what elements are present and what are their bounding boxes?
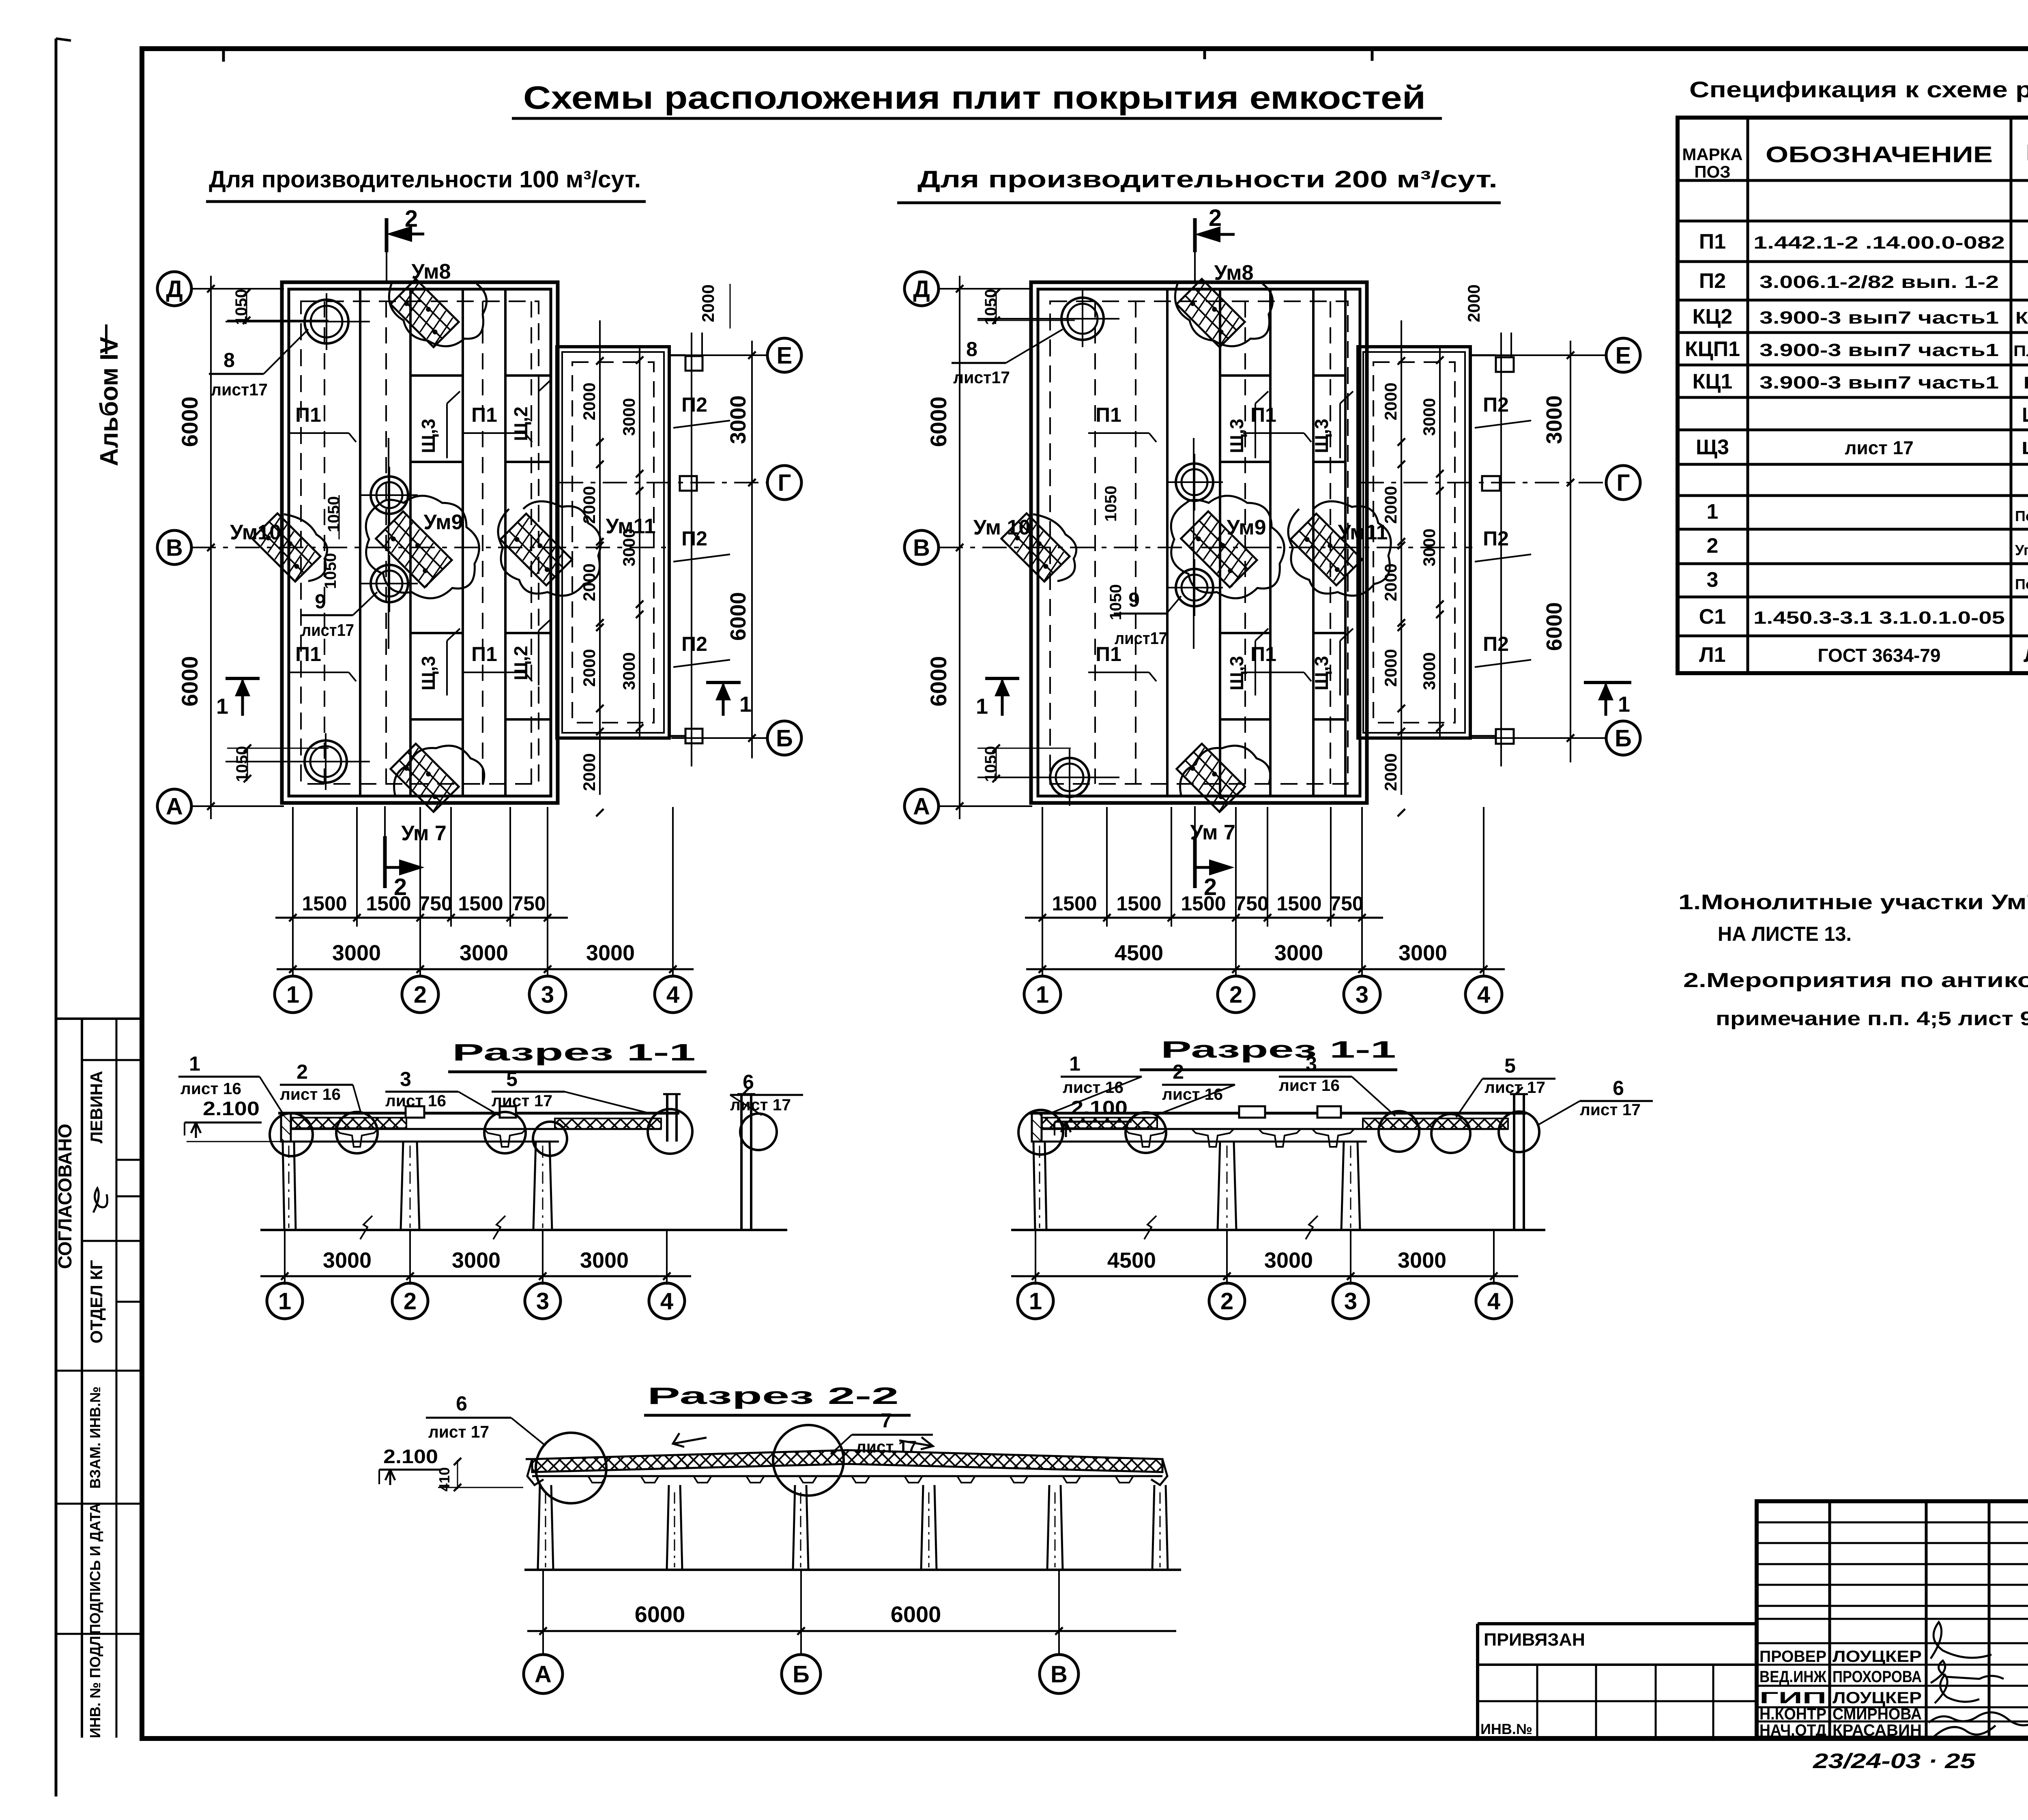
- svg-text:лист 16: лист 16: [1279, 1077, 1340, 1095]
- svg-text:Плита перекрытия КЦП1-15-1: Плита перекрытия КЦП1-15-1: [2013, 343, 2028, 360]
- svg-text:2.100: 2.100: [1071, 1097, 1128, 1119]
- svg-text:СМИРНОВА: СМИРНОВА: [1833, 1705, 1922, 1723]
- svg-text:2: 2: [1209, 205, 1222, 231]
- svg-text:1050: 1050: [1102, 486, 1120, 522]
- svg-text:Г: Г: [778, 470, 791, 496]
- plan2 inner dim lines 2000/3000: [1401, 320, 1402, 795]
- svg-text:750: 750: [1235, 892, 1268, 915]
- section right wall pairs: [666, 1094, 668, 1142]
- svg-text:1: 1: [189, 1052, 200, 1075]
- svg-text:Ум9: Ум9: [423, 511, 463, 534]
- svg-text:Альбом IV: Альбом IV: [95, 337, 123, 466]
- svg-text:Д: Д: [913, 276, 930, 302]
- plan1 monolith Um9: [376, 511, 453, 588]
- plan2 section flag 2 top: [1193, 218, 1197, 252]
- section roof slab: [1032, 1113, 1042, 1142]
- svg-text:Щ,3: Щ,3: [418, 419, 439, 453]
- svg-text:П2: П2: [1483, 633, 1509, 655]
- section dim line: [284, 1230, 286, 1285]
- svg-text:6000: 6000: [1542, 602, 1566, 651]
- svg-text:Щ,3: Щ,3: [418, 656, 439, 690]
- svg-text:1500: 1500: [1052, 892, 1097, 915]
- svg-text:В: В: [166, 534, 183, 561]
- plan1 axis lines: [191, 288, 284, 290]
- svg-text:А: А: [166, 793, 183, 820]
- plan2 EGB dim line: [1570, 341, 1571, 762]
- svg-text:Для производительности 100 м: Для производительности 100 м³/сут.: [209, 166, 641, 193]
- svg-text:лист 16: лист 16: [280, 1086, 341, 1103]
- svg-text:Н.КОНТР: Н.КОНТР: [1759, 1705, 1826, 1723]
- svg-text:9: 9: [1128, 588, 1140, 611]
- svg-text:Ум10: Ум10: [230, 521, 281, 544]
- svg-text:1: 1: [1707, 500, 1719, 524]
- svg-text:Л1: Л1: [1699, 643, 1725, 667]
- svg-text:ПОДПИСЬ И ДАТА: ПОДПИСЬ И ДАТА: [87, 1503, 103, 1634]
- privyazan block: [1478, 1622, 1757, 1625]
- svg-text:2: 2: [1229, 981, 1242, 1008]
- plan2 section marks 1: [985, 677, 1019, 680]
- svg-text:Уголок: Уголок: [2015, 542, 2028, 558]
- plan2 P2 stubs: [1496, 357, 1514, 372]
- svg-text:ЛОУЦКЕР: ЛОУЦКЕР: [1833, 1648, 1922, 1665]
- svg-text:1500: 1500: [1116, 892, 1161, 915]
- plan1 section flag 2 bottom: [383, 836, 387, 888]
- svg-text:3000: 3000: [1420, 528, 1439, 566]
- svg-text:ГОСТ 3634-79: ГОСТ 3634-79: [1817, 645, 1940, 666]
- svg-text:3: 3: [1707, 568, 1719, 592]
- svg-text:лист 16: лист 16: [180, 1080, 241, 1098]
- svg-text:П1: П1: [295, 403, 321, 426]
- section T-beams: [336, 1129, 378, 1147]
- svg-text:Щ,2: Щ,2: [510, 406, 531, 441]
- plan1 monolith Um8: [391, 279, 459, 347]
- svg-text:Полоса: Полоса: [2015, 508, 2028, 524]
- plan2 dim 6000 left: [959, 276, 960, 819]
- svg-text:6000: 6000: [891, 1601, 941, 1627]
- svg-text:лист 16: лист 16: [385, 1092, 446, 1110]
- left sidebar stamp: [57, 1017, 142, 1020]
- svg-text:ПРИВЯЗАН: ПРИВЯЗАН: [1484, 1630, 1585, 1650]
- svg-text:лист 17: лист 17: [492, 1092, 552, 1110]
- svg-text:лист17: лист17: [301, 620, 354, 640]
- svg-text:3.006.1-2/82 вып. 1-2: 3.006.1-2/82 вып. 1-2: [1759, 272, 1999, 292]
- svg-text:Б: Б: [1615, 725, 1632, 751]
- section2 ground: [524, 1569, 1181, 1571]
- svg-text:ВЕД.ИНЖ: ВЕД.ИНЖ: [1759, 1668, 1827, 1686]
- plan2 interior strips: [1166, 289, 1169, 796]
- svg-text:2000: 2000: [580, 753, 599, 791]
- spec table grid: [1678, 118, 2028, 673]
- svg-text:1: 1: [1618, 692, 1630, 717]
- plan1 monolith Um11: [501, 514, 572, 586]
- plan1 P2 annex: [557, 347, 669, 738]
- svg-text:750: 750: [1330, 892, 1363, 915]
- svg-text:ВЗАМ. ИНВ.№: ВЗАМ. ИНВ.№: [87, 1386, 103, 1489]
- svg-text:Разрез 1-1: Разрез 1-1: [1161, 1037, 1396, 1063]
- section2 detail circles: [536, 1433, 606, 1503]
- svg-text:лист 17: лист 17: [856, 1437, 917, 1456]
- section T-beams: [1125, 1129, 1167, 1147]
- plan1 dim row 1: [275, 917, 568, 919]
- svg-text:6000: 6000: [926, 656, 951, 707]
- svg-text:2000: 2000: [1381, 753, 1400, 791]
- svg-text:3.900-3 вып7 часть1: 3.900-3 вып7 часть1: [1759, 340, 1999, 360]
- svg-text:Щ,3: Щ,3: [1226, 419, 1247, 453]
- svg-text:3000: 3000: [1420, 398, 1439, 436]
- svg-text:3000: 3000: [586, 941, 635, 965]
- plan2 dim row 2: [1026, 968, 1505, 970]
- svg-text:9: 9: [315, 590, 326, 613]
- plan2 monolith Um8: [1177, 279, 1245, 347]
- svg-text:2000: 2000: [1381, 563, 1400, 601]
- svg-text:3000: 3000: [332, 941, 381, 965]
- svg-text:3000: 3000: [1274, 941, 1323, 965]
- svg-text:2: 2: [296, 1060, 308, 1083]
- svg-text:П1: П1: [471, 643, 497, 665]
- svg-text:Е: Е: [777, 342, 793, 369]
- svg-text:2000: 2000: [1381, 649, 1400, 687]
- svg-text:5: 5: [1504, 1054, 1516, 1077]
- svg-text:ЛОУЦКЕР: ЛОУЦКЕР: [1833, 1689, 1922, 1707]
- svg-text:Ум 7: Ум 7: [1190, 821, 1235, 844]
- svg-text:1: 1: [976, 694, 988, 719]
- svg-text:6: 6: [1613, 1077, 1624, 1099]
- svg-text:2.Мероприятия по антикоррози: 2.Мероприятия по антикоррозионной защите…: [1683, 969, 2028, 992]
- svg-text:3: 3: [1356, 981, 1368, 1008]
- svg-text:1: 1: [286, 981, 299, 1008]
- svg-text:6000: 6000: [926, 397, 951, 447]
- svg-text:3000: 3000: [1399, 941, 1447, 965]
- svg-text:2.100: 2.100: [383, 1446, 438, 1468]
- svg-text:1500: 1500: [366, 892, 411, 915]
- plan2 bottom axis bubbles: [1024, 976, 1061, 1013]
- svg-text:2000: 2000: [1381, 486, 1400, 524]
- plan1 dim 6000 left: [210, 276, 212, 819]
- svg-text:4: 4: [660, 1288, 673, 1314]
- svg-text:лист 17: лист 17: [730, 1096, 791, 1114]
- svg-text:3000: 3000: [460, 941, 508, 965]
- svg-text:1500: 1500: [1276, 892, 1321, 915]
- svg-text:СОГЛАСОВАНО: СОГЛАСОВАНО: [54, 1124, 75, 1269]
- section2 slope arrows: [673, 1433, 707, 1447]
- svg-text:ЩИТЫ ДЕРЕВЯННЫЕ: ЩИТЫ ДЕРЕВЯННЫЕ: [2022, 403, 2028, 426]
- svg-text:4: 4: [666, 981, 679, 1008]
- svg-text:3000: 3000: [1264, 1248, 1313, 1273]
- svg-text:3: 3: [1344, 1288, 1357, 1314]
- svg-text:Ум9: Ум9: [1227, 516, 1266, 539]
- section beam soffit: [1038, 1141, 1367, 1143]
- plan2 axis bubbles left: [904, 272, 939, 306]
- svg-text:23/24-03 · 25: 23/24-03 · 25: [1813, 1749, 1976, 1773]
- svg-text:1.Монолитные участки Ум7 ÷ У: 1.Монолитные участки Ум7 ÷ Ум11 учтены в…: [1678, 891, 2028, 914]
- svg-text:3: 3: [541, 981, 554, 1008]
- svg-text:лист17: лист17: [1115, 629, 1167, 648]
- svg-text:750: 750: [512, 892, 546, 915]
- svg-text:8: 8: [966, 338, 977, 361]
- svg-text:3000: 3000: [619, 528, 638, 566]
- svg-text:2000: 2000: [580, 563, 599, 601]
- plan2 monolith Um7: [1177, 744, 1245, 812]
- svg-text:лист 17: лист 17: [428, 1422, 489, 1441]
- svg-text:Ум8: Ум8: [1214, 261, 1253, 285]
- section2 dim line: [542, 1570, 544, 1638]
- svg-text:8: 8: [223, 349, 235, 371]
- svg-text:3000: 3000: [619, 652, 638, 690]
- svg-text:П2: П2: [1483, 393, 1509, 416]
- svg-text:НАИМЕНОВАНИЕ: НАИМЕНОВАНИЕ: [2026, 140, 2028, 165]
- section beam soffit: [287, 1141, 559, 1143]
- svg-text:3000: 3000: [323, 1248, 372, 1273]
- svg-text:Люк чугунный "Л": Люк чугунный "Л": [2024, 645, 2028, 666]
- plan1 monolith Um7: [391, 744, 459, 812]
- section detail circles: [270, 1113, 313, 1156]
- section detail circles: [1018, 1110, 1063, 1155]
- signatures: [1931, 1622, 1991, 1659]
- section2 roof slab: [532, 1450, 1162, 1472]
- svg-text:Ум 7: Ум 7: [401, 822, 447, 845]
- svg-text:Щ,3: Щ,3: [1226, 656, 1247, 690]
- svg-text:В: В: [913, 534, 930, 561]
- section ground line: [1011, 1229, 1545, 1231]
- svg-text:2: 2: [405, 206, 418, 232]
- plan2 monolith Um11: [1291, 514, 1362, 586]
- section axis bubbles: [267, 1283, 303, 1319]
- svg-text:6000: 6000: [726, 592, 750, 641]
- svg-text:ИНВ.№: ИНВ.№: [1480, 1721, 1532, 1737]
- plan1 dim row 2: [277, 968, 694, 970]
- svg-text:4: 4: [1487, 1288, 1500, 1314]
- svg-text:2: 2: [1220, 1288, 1233, 1314]
- svg-text:П1: П1: [1699, 230, 1726, 253]
- svg-text:1050: 1050: [1107, 584, 1125, 620]
- svg-text:3000: 3000: [1420, 652, 1439, 690]
- svg-text:ГИП: ГИП: [1759, 1689, 1826, 1707]
- svg-text:Схемы расположения плит пок: Схемы расположения плит покрытия емкосте…: [523, 79, 1426, 116]
- section columns: [401, 1142, 419, 1230]
- svg-text:КЦП1: КЦП1: [1685, 337, 1740, 361]
- svg-text:2: 2: [1707, 534, 1719, 558]
- svg-text:6: 6: [743, 1071, 754, 1093]
- svg-text:Щит деревянный Щ3: Щит деревянный Щ3: [2022, 438, 2028, 458]
- svg-text:ИНВ. № ПОДЛ: ИНВ. № ПОДЛ: [87, 1636, 103, 1738]
- svg-text:4500: 4500: [1115, 941, 1163, 965]
- plan2 manhole centerlines: [977, 318, 1119, 320]
- section roof slab: [281, 1113, 291, 1142]
- svg-text:ПОЗ: ПОЗ: [1694, 162, 1730, 181]
- svg-text:лист17: лист17: [211, 380, 268, 399]
- svg-text:2: 2: [404, 1288, 417, 1314]
- plan2 dim row 1: [1025, 917, 1383, 919]
- section axis bubbles: [1018, 1283, 1053, 1319]
- svg-text:2: 2: [1173, 1060, 1184, 1083]
- svg-text:В: В: [1051, 1661, 1068, 1687]
- svg-text:Кольцо опорное КЦ0-1: Кольцо опорное КЦ0-1: [2024, 373, 2028, 392]
- svg-text:Полоса: Полоса: [2015, 576, 2028, 592]
- svg-text:Ум8: Ум8: [411, 260, 451, 283]
- svg-text:Кольцо стеновое КЦ15-9: Кольцо стеновое КЦ15-9: [2015, 308, 2028, 327]
- svg-text:3.900-3 вып7 часть1: 3.900-3 вып7 часть1: [1759, 373, 1999, 393]
- section columns: [1218, 1142, 1236, 1230]
- svg-text:1050: 1050: [322, 553, 339, 589]
- plan2 bottom extension lines: [1042, 807, 1043, 977]
- svg-text:А: А: [535, 1661, 552, 1687]
- svg-text:3: 3: [536, 1288, 549, 1314]
- svg-text:3: 3: [1306, 1052, 1317, 1075]
- section ground line: [260, 1229, 787, 1231]
- svg-text:МАРКА: МАРКА: [1682, 145, 1742, 164]
- svg-text:1.450.3-3.1 3.1.0.1.0-05: 1.450.3-3.1 3.1.0.1.0-05: [1753, 608, 2005, 628]
- svg-text:2000: 2000: [1381, 382, 1400, 420]
- signature levina: [93, 1188, 107, 1213]
- svg-text:3000: 3000: [1542, 395, 1566, 444]
- plan1 monolith Um10: [252, 513, 320, 582]
- svg-text:ОБОЗНАЧЕНИЕ: ОБОЗНАЧЕНИЕ: [1766, 142, 1993, 167]
- svg-text:П1: П1: [1250, 643, 1276, 665]
- svg-text:6000: 6000: [177, 397, 202, 447]
- svg-text:КРАСАВИН: КРАСАВИН: [1833, 1721, 1922, 1739]
- plan1 axis bubbles right: [767, 338, 801, 372]
- plan2 tank outline: [1031, 282, 1367, 803]
- svg-text:НАЧ.ОТД: НАЧ.ОТД: [1759, 1721, 1826, 1739]
- svg-text:П2: П2: [681, 527, 707, 550]
- svg-text:лист 17: лист 17: [1845, 437, 1914, 458]
- svg-text:ЛЕВИНА: ЛЕВИНА: [87, 1071, 106, 1144]
- svg-text:Е: Е: [1616, 342, 1631, 369]
- svg-text:5: 5: [506, 1068, 518, 1090]
- plan1 section flag 2 top: [385, 218, 389, 252]
- plan1 bottom extension lines: [292, 807, 294, 977]
- svg-text:Щ3: Щ3: [1696, 436, 1729, 459]
- svg-text:2.100: 2.100: [203, 1098, 260, 1120]
- plan1 P2 stubs: [685, 356, 702, 371]
- svg-text:2000: 2000: [1464, 284, 1483, 322]
- svg-text:лист 17: лист 17: [1580, 1101, 1641, 1119]
- svg-text:2: 2: [414, 981, 427, 1008]
- svg-text:1050: 1050: [325, 496, 343, 532]
- svg-text:П2: П2: [681, 393, 707, 416]
- svg-text:А: А: [913, 793, 930, 820]
- plan1 manhole centerlines: [226, 321, 370, 322]
- svg-text:С1: С1: [1699, 605, 1726, 629]
- svg-text:Б: Б: [793, 1661, 810, 1687]
- svg-text:3000: 3000: [452, 1248, 501, 1273]
- plan2 manholes: [1061, 298, 1104, 340]
- svg-text:ПРОВЕР: ПРОВЕР: [1759, 1648, 1826, 1665]
- svg-text:Спецификация к схеме распол: Спецификация к схеме расположения плит п…: [1689, 77, 2028, 102]
- svg-text:1: 1: [1036, 981, 1049, 1008]
- svg-text:1: 1: [1069, 1052, 1081, 1075]
- svg-text:2000: 2000: [580, 486, 599, 524]
- svg-text:1: 1: [216, 694, 228, 719]
- svg-text:П1: П1: [1096, 403, 1121, 426]
- plan1 interior strips: [359, 289, 361, 796]
- svg-text:3000: 3000: [580, 1248, 629, 1273]
- svg-text:3: 3: [400, 1068, 411, 1090]
- svg-text:ПРОХОРОВА: ПРОХОРОВА: [1833, 1668, 1922, 1686]
- svg-text:3000: 3000: [1398, 1248, 1446, 1273]
- svg-text:П1: П1: [471, 403, 497, 426]
- svg-text:3000: 3000: [726, 395, 750, 444]
- section plank upstands: [406, 1106, 424, 1118]
- svg-text:1500: 1500: [302, 892, 347, 915]
- plan1 EGB dim line: [751, 341, 753, 758]
- svg-text:Ум 10: Ум 10: [973, 516, 1031, 539]
- plan1 tank outline: [282, 282, 558, 803]
- section dim line: [1035, 1230, 1036, 1285]
- section2 columns: [538, 1485, 553, 1570]
- svg-text:П2: П2: [1483, 527, 1509, 550]
- svg-text:Для производительности 200 м: Для производительности 200 м³/сут.: [917, 166, 1497, 193]
- svg-text:6000: 6000: [177, 656, 202, 707]
- plan2 axis lines: [939, 288, 1032, 290]
- svg-text:КЦ1: КЦ1: [1693, 370, 1733, 393]
- section right wall pairs: [1513, 1094, 1515, 1230]
- plan2 axis bubbles right: [1606, 338, 1640, 372]
- svg-text:Г: Г: [1617, 470, 1630, 496]
- plan1 axis bubbles left: [157, 272, 191, 306]
- plan1 bottom axis bubbles: [275, 976, 311, 1013]
- svg-text:6000: 6000: [635, 1601, 685, 1627]
- svg-text:1: 1: [739, 692, 752, 717]
- svg-text:Разрез 1-1: Разрез 1-1: [452, 1039, 696, 1066]
- svg-text:2000: 2000: [698, 284, 718, 322]
- svg-text:2000: 2000: [580, 649, 599, 687]
- svg-text:ОТДЕЛ КГ: ОТДЕЛ КГ: [87, 1260, 106, 1344]
- svg-text:7: 7: [881, 1409, 892, 1432]
- svg-text:примечание п.п. 4;5 лист 9.: примечание п.п. 4;5 лист 9.: [1716, 1008, 2028, 1030]
- plan2 P2 annex: [1358, 347, 1470, 738]
- plan2 section flag 2 bottom: [1193, 836, 1197, 888]
- svg-text:1: 1: [1029, 1288, 1042, 1314]
- plan2 monolith Um9: [1181, 511, 1258, 588]
- svg-text:3.900-3 вып7 часть1: 3.900-3 вып7 часть1: [1759, 308, 1999, 328]
- section2 axis bubbles: [542, 1631, 544, 1655]
- svg-text:1: 1: [278, 1288, 291, 1314]
- svg-text:Щ,3: Щ,3: [1311, 419, 1332, 453]
- section plank upstands: [1239, 1106, 1265, 1118]
- plan1 inner dim lines 2000/3000: [599, 320, 601, 795]
- svg-text:750: 750: [419, 892, 452, 915]
- svg-text:Щ,2: Щ,2: [510, 646, 531, 680]
- paper edge left: [55, 39, 58, 1796]
- svg-text:6: 6: [456, 1392, 467, 1415]
- svg-text:1.442.1-2 .14.00.0-082: 1.442.1-2 .14.00.0-082: [1753, 233, 2005, 253]
- svg-text:лист17: лист17: [953, 368, 1010, 387]
- svg-text:4500: 4500: [1107, 1248, 1156, 1273]
- plan1 section marks 1: [226, 677, 260, 680]
- svg-text:4: 4: [1477, 981, 1490, 1008]
- svg-text:лист 17: лист 17: [1484, 1079, 1545, 1097]
- title block: [1757, 1501, 2028, 1738]
- svg-text:П1: П1: [1250, 403, 1276, 426]
- svg-text:Д: Д: [166, 276, 183, 302]
- svg-text:1500: 1500: [1181, 892, 1226, 915]
- svg-text:П1: П1: [295, 643, 321, 665]
- svg-text:НА ЛИСТЕ 13.: НА ЛИСТЕ 13.: [1718, 923, 1852, 945]
- svg-text:Разрез 2-2: Разрез 2-2: [647, 1383, 899, 1409]
- svg-text:КЦ2: КЦ2: [1693, 305, 1733, 328]
- plan1 manholes: [305, 300, 348, 343]
- svg-text:2000: 2000: [580, 382, 599, 420]
- plan2 monolith Um10: [1001, 513, 1070, 582]
- svg-text:Щ,3: Щ,3: [1311, 656, 1332, 690]
- svg-text:3000: 3000: [619, 398, 638, 436]
- svg-text:П2: П2: [1699, 269, 1726, 293]
- svg-text:1500: 1500: [458, 892, 503, 915]
- svg-text:Б: Б: [776, 725, 793, 751]
- svg-text:П2: П2: [681, 633, 707, 655]
